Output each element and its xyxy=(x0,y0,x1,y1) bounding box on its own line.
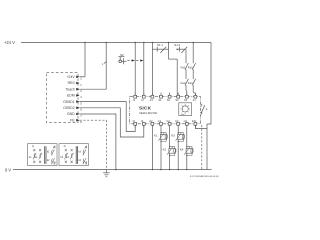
svg-text:S4: S4 xyxy=(184,98,188,102)
svg-text:Fa1: Fa1 xyxy=(181,65,186,69)
svg-text:C4: C4 xyxy=(184,119,188,123)
svg-text:C2: C2 xyxy=(166,119,170,123)
svg-text:SICK: SICK xyxy=(139,106,152,112)
svg-text:EDM: EDM xyxy=(67,94,75,98)
svg-text:Fa4: Fa4 xyxy=(188,81,193,85)
svg-text:S1: S1 xyxy=(158,98,162,102)
svg-text:S1.2: S1.2 xyxy=(174,43,180,47)
svg-text:X1: X1 xyxy=(193,98,197,102)
svg-text:Fa3: Fa3 xyxy=(188,65,193,69)
svg-text:1): 1) xyxy=(32,145,34,148)
svg-text:0 V: 0 V xyxy=(5,167,11,172)
svg-text:K4: K4 xyxy=(180,148,184,152)
svg-text:OSSD2: OSSD2 xyxy=(63,106,75,110)
svg-text:OSSD1: OSSD1 xyxy=(63,100,75,104)
svg-text:K2: K2 xyxy=(163,148,167,152)
svg-text:8 012 345/XA55/2010-05-05 GB: 8 012 345/XA55/2010-05-05 GB xyxy=(190,175,219,178)
svg-text:S1.1: S1.1 xyxy=(157,43,163,47)
svg-text:C3: C3 xyxy=(175,119,179,123)
svg-text:+24V: +24V xyxy=(67,75,76,79)
svg-text:S3: S3 xyxy=(175,98,179,102)
svg-text:RES: RES xyxy=(68,81,76,85)
svg-text:Teach: Teach xyxy=(66,87,75,91)
svg-text:GND: GND xyxy=(67,112,75,116)
svg-text:K1: K1 xyxy=(154,134,158,138)
svg-text:K3: K3 xyxy=(171,134,175,138)
svg-text:FE: FE xyxy=(70,118,75,122)
svg-text:EN: EN xyxy=(192,119,196,123)
svg-text:flexi: flexi xyxy=(181,114,185,116)
svg-text:UE410-MU/ MU: UE410-MU/ MU xyxy=(139,111,157,115)
svg-text:A2: A2 xyxy=(149,119,153,123)
svg-text:+24 V: +24 V xyxy=(4,40,15,45)
svg-text:C1: C1 xyxy=(158,119,162,123)
svg-text:A1: A1 xyxy=(150,98,154,102)
svg-text:S2: S2 xyxy=(167,98,171,102)
svg-text:Fa2: Fa2 xyxy=(181,81,186,85)
svg-text:S2: S2 xyxy=(120,53,124,57)
svg-text:2): 2) xyxy=(64,145,66,148)
